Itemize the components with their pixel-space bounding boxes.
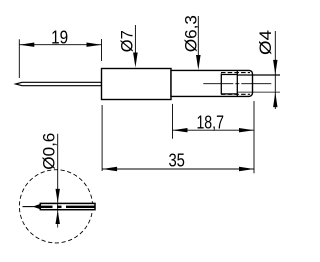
svg-text:Ø0,6: Ø0,6	[40, 133, 59, 170]
svg-text:Ø4: Ø4	[256, 30, 275, 55]
svg-text:Ø7: Ø7	[117, 30, 136, 52]
svg-text:Ø6,3: Ø6,3	[182, 15, 201, 52]
svg-text:18,7: 18,7	[196, 112, 224, 132]
svg-text:35: 35	[168, 150, 185, 170]
svg-text:19: 19	[51, 28, 68, 48]
